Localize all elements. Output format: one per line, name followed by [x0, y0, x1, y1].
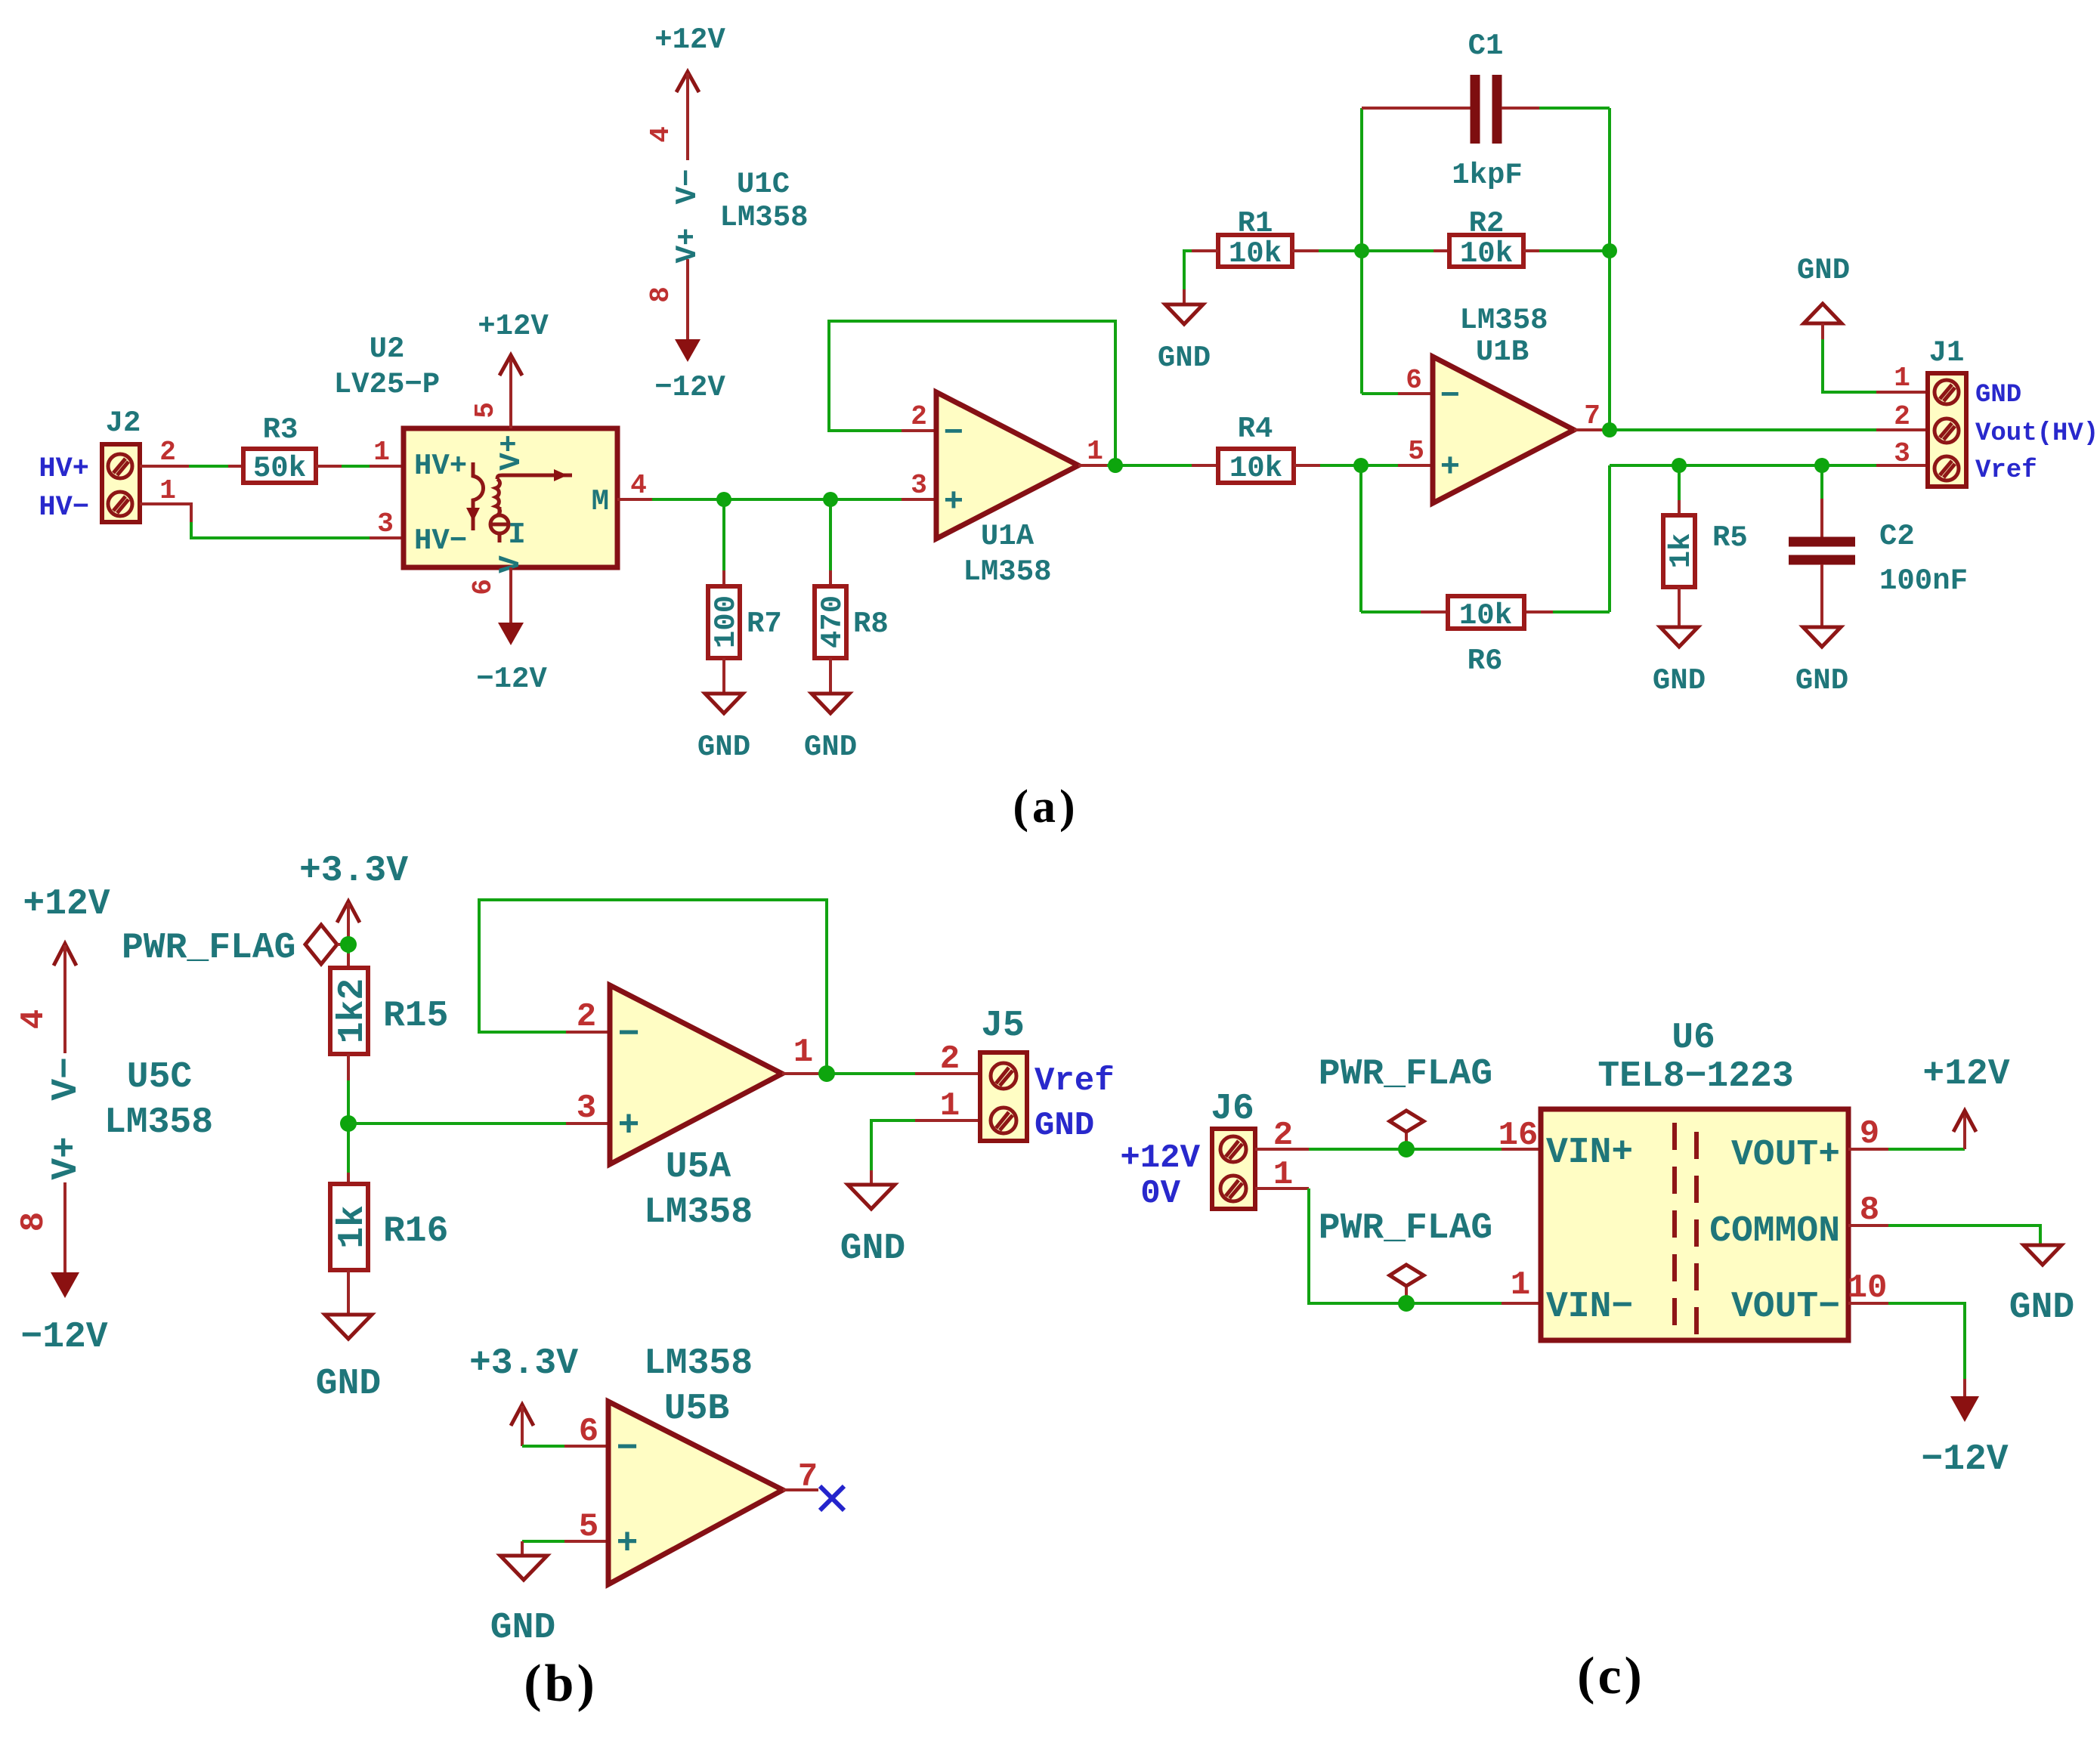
power +3.3V above R15 — [299, 851, 408, 944]
svg-text:50k: 50k — [253, 452, 306, 485]
svg-text:−: − — [617, 1429, 639, 1470]
svg-text:GND: GND — [1158, 342, 1211, 375]
node junction R5 tap — [1672, 458, 1687, 473]
svg-text:C1: C1 — [1468, 29, 1504, 63]
wire down to R5 — [1678, 465, 1681, 515]
svg-text:+: + — [944, 484, 963, 521]
U2 internal current source — [490, 507, 509, 542]
svg-text:U1A: U1A — [981, 520, 1035, 553]
wire to R15 — [347, 944, 350, 968]
resistor R6 — [1448, 596, 1524, 678]
wire down to R8 — [829, 499, 832, 586]
svg-text:GND: GND — [1795, 664, 1848, 697]
ground below R7 — [697, 694, 750, 764]
svg-text:R3: R3 — [263, 413, 298, 447]
svg-text:6: 6 — [468, 579, 499, 595]
U5C pin 4 V- — [15, 945, 87, 1101]
U5C pin 8 V+ — [15, 1136, 87, 1272]
resistor R5 — [1663, 515, 1748, 587]
wire left rail (C1/R2/U1B pin6) — [1362, 108, 1433, 394]
svg-text:4: 4 — [630, 470, 647, 501]
svg-text:6: 6 — [579, 1413, 598, 1451]
svg-text:10k: 10k — [1229, 237, 1282, 270]
wire J2 pin2 to R3 — [140, 465, 243, 468]
node junction C2 tap — [1814, 458, 1829, 473]
svg-text:U1B: U1B — [1476, 335, 1529, 369]
svg-text:COMMON: COMMON — [1709, 1211, 1840, 1252]
svg-text:470: 470 — [816, 595, 849, 648]
svg-text:LM358: LM358 — [644, 1192, 753, 1233]
svg-text:2: 2 — [911, 401, 927, 432]
wire divider to U5A pin3 — [348, 1122, 610, 1125]
svg-text:10: 10 — [1848, 1269, 1888, 1307]
op-amp U5A — [610, 985, 782, 1233]
wire +3.3V to U5B pin6 — [522, 1445, 608, 1448]
wire R1 left to GND — [1184, 251, 1218, 304]
power +12V above U2 — [478, 310, 549, 428]
wire U5A pin2 feedback loop — [479, 900, 827, 1074]
wire R7 to GND — [722, 658, 725, 694]
wire VOUT+ to +12V — [1848, 1112, 1965, 1149]
svg-text:HV−: HV− — [39, 492, 89, 524]
svg-text:U1C: U1C — [737, 168, 790, 201]
svg-text:PWR_FLAG: PWR_FLAG — [1319, 1054, 1492, 1095]
svg-text:J6: J6 — [1211, 1089, 1254, 1130]
svg-text:R4: R4 — [1238, 413, 1273, 446]
svg-text:LM358: LM358 — [104, 1102, 213, 1143]
svg-text:R1: R1 — [1238, 207, 1273, 240]
wire to R16 — [347, 1173, 350, 1184]
svg-text:V: V — [495, 453, 528, 471]
svg-text:1: 1 — [1894, 363, 1910, 394]
svg-text:5: 5 — [1408, 436, 1424, 467]
svg-text:7: 7 — [1584, 400, 1601, 431]
resistor R1 — [1218, 207, 1292, 270]
resistor R16 — [330, 1184, 448, 1270]
op-amp power unit U5C — [104, 1057, 213, 1143]
wire U5B output stub — [783, 1488, 818, 1491]
power +12V (U6 output) — [1922, 1054, 2009, 1132]
resistor R15 — [330, 968, 448, 1054]
power +12V (U5C) — [23, 884, 110, 966]
svg-text:8: 8 — [15, 1212, 53, 1232]
wire U1A pin2 feedback — [829, 321, 1115, 465]
connector J2 — [102, 406, 141, 522]
svg-text:+: + — [617, 1524, 639, 1565]
power -12V (U6 output) — [1921, 1396, 2008, 1480]
svg-text:3: 3 — [577, 1089, 596, 1127]
svg-text:HV+: HV+ — [39, 453, 89, 485]
svg-text:8: 8 — [1860, 1191, 1879, 1229]
wire U1A output — [1078, 464, 1218, 467]
svg-text:J1: J1 — [1929, 336, 1965, 369]
wire R15 to divider node — [347, 1054, 350, 1173]
resistor R4 — [1218, 413, 1294, 485]
ground below R8 — [804, 694, 857, 764]
svg-text:GND: GND — [1975, 381, 2021, 410]
U1C pin 4 V- — [645, 73, 704, 204]
svg-text:1: 1 — [793, 1034, 813, 1071]
svg-text:TEL8−1223: TEL8−1223 — [1597, 1056, 1793, 1097]
svg-text:(c): (c) — [1577, 1647, 1645, 1705]
node junction divider tap — [340, 1115, 357, 1132]
svg-text:V+: V+ — [46, 1136, 87, 1180]
svg-text:9: 9 — [1860, 1115, 1879, 1153]
svg-text:GND: GND — [1797, 254, 1850, 287]
svg-text:1k2: 1k2 — [332, 978, 373, 1043]
node junction right rail / R2 — [1602, 243, 1617, 258]
connector J6 — [1211, 1089, 1255, 1209]
connector J5 — [980, 1006, 1027, 1141]
svg-text:2: 2 — [159, 437, 176, 468]
wire C2 to GND — [1820, 564, 1823, 627]
svg-text:U5C: U5C — [127, 1057, 192, 1098]
svg-text:Vout(HV): Vout(HV) — [1975, 419, 2098, 448]
node junction at R6 tap — [1353, 458, 1369, 473]
svg-text:M: M — [592, 485, 609, 518]
svg-text:6: 6 — [1406, 365, 1422, 396]
svg-text:0V: 0V — [1140, 1175, 1180, 1213]
svg-text:1k: 1k — [1665, 533, 1698, 569]
svg-text:+12V: +12V — [1120, 1139, 1200, 1177]
svg-text:−: − — [618, 1015, 640, 1055]
power flag PWR_FLAG (VIN-) — [1319, 1208, 1492, 1303]
wire GND to J1 pin1 — [1823, 339, 1928, 392]
U1C pin 8 V+ — [645, 228, 704, 339]
U2 internal primary winding with arrow — [466, 462, 484, 530]
svg-text:R5: R5 — [1712, 521, 1748, 555]
U2 internal secondary coil — [496, 479, 500, 515]
svg-text:U2: U2 — [370, 332, 405, 366]
svg-text:+12V: +12V — [654, 23, 725, 57]
op-amp power unit U1C — [719, 168, 808, 234]
svg-text:GND: GND — [840, 1229, 905, 1269]
wire down to R7 — [722, 499, 725, 586]
svg-text:GND: GND — [1653, 664, 1706, 697]
power -12V (U1C) — [654, 339, 725, 404]
ground below R1 — [1158, 304, 1211, 375]
svg-text:1: 1 — [1511, 1266, 1530, 1304]
wire Vref net to J1 pin3 — [1610, 464, 1928, 467]
svg-text:3: 3 — [1894, 438, 1910, 469]
node junction U1B output — [1602, 422, 1617, 437]
wire right rail C1/R2 down to U1B output — [1608, 108, 1611, 430]
svg-text:−: − — [1440, 378, 1460, 416]
svg-text:(b): (b) — [524, 1655, 598, 1713]
svg-text:C2: C2 — [1879, 520, 1915, 553]
svg-text:Vref: Vref — [1975, 456, 2037, 485]
power flag PWR_FLAG (+3.3V rail) — [122, 925, 348, 969]
U2 internal arrow to M — [497, 469, 572, 481]
svg-text:V−: V− — [671, 169, 704, 205]
ground below C2 — [1795, 627, 1848, 697]
svg-text:VOUT+: VOUT+ — [1731, 1135, 1840, 1176]
node junction PWR_FLAG / VIN- — [1398, 1295, 1415, 1312]
wire VOUT- to -12V — [1848, 1303, 1965, 1396]
connector J1 — [1928, 336, 1966, 487]
power +3.3V above U5B — [469, 1343, 578, 1446]
wire U2 pin4 M to U1A pin3 — [617, 498, 936, 501]
wire J6 pin1 to U6 VIN- — [1255, 1188, 1541, 1303]
wire R4 to U1B pin5 — [1294, 464, 1433, 467]
op-amp U1A — [936, 392, 1078, 589]
wire R1 right to rail — [1292, 249, 1362, 252]
power -12V below U2 — [476, 567, 547, 696]
ground below J5 — [840, 1185, 905, 1269]
svg-text:5: 5 — [470, 402, 501, 419]
svg-text:−12V: −12V — [1921, 1439, 2008, 1480]
svg-text:3: 3 — [377, 508, 394, 539]
svg-text:10k: 10k — [1459, 599, 1512, 632]
op-amp U5B — [608, 1343, 783, 1584]
node junction at R7 tap — [716, 492, 731, 507]
svg-text:4: 4 — [15, 1009, 53, 1029]
svg-text:LM358: LM358 — [963, 555, 1051, 589]
wire J2 pin1 to U2 HV- — [140, 504, 404, 538]
svg-text:VIN+: VIN+ — [1546, 1133, 1633, 1173]
svg-text:J5: J5 — [981, 1006, 1025, 1046]
svg-text:LM358: LM358 — [1459, 304, 1548, 337]
svg-text:(a): (a) — [1013, 781, 1078, 833]
ground below R16 — [316, 1315, 381, 1405]
svg-text:VOUT−: VOUT− — [1731, 1287, 1840, 1327]
wire R3 to U2 pin1 — [316, 465, 404, 468]
wire R16 to GND — [347, 1270, 350, 1315]
power flag PWR_FLAG (VIN+) — [1319, 1054, 1492, 1149]
svg-text:+3.3V: +3.3V — [299, 851, 408, 892]
node junction U1A output — [1108, 458, 1123, 473]
svg-text:I: I — [508, 518, 525, 552]
svg-text:U6: U6 — [1672, 1018, 1715, 1059]
wire down to C2 — [1820, 465, 1823, 537]
svg-text:10k: 10k — [1460, 237, 1513, 270]
svg-text:V−: V− — [46, 1057, 87, 1101]
node junction +3.3V / PWR_FLAG / R15 — [340, 936, 357, 953]
svg-text:U5A: U5A — [666, 1147, 731, 1188]
svg-text:1: 1 — [159, 475, 176, 506]
capacitor C1 — [1362, 29, 1610, 192]
svg-text:+: + — [1440, 449, 1460, 487]
svg-text:V+: V+ — [671, 228, 704, 264]
wire GND to U5B pin5 — [522, 1541, 608, 1556]
svg-text:+12V: +12V — [478, 310, 549, 343]
svg-text:2: 2 — [1894, 401, 1910, 432]
power -12V (U5C) — [20, 1272, 107, 1358]
svg-text:2: 2 — [940, 1040, 960, 1078]
svg-text:GND: GND — [2009, 1287, 2074, 1328]
svg-text:GND: GND — [1035, 1107, 1094, 1145]
resistor R3 — [243, 413, 316, 485]
resistor R8 — [815, 586, 889, 658]
capacitor C2 — [1789, 520, 1968, 598]
ground below U5B pin5 — [490, 1556, 555, 1649]
ground below R5 — [1653, 627, 1706, 697]
svg-text:GND: GND — [490, 1608, 555, 1649]
svg-text:+3.3V: +3.3V — [469, 1343, 578, 1384]
svg-text:3: 3 — [911, 470, 927, 501]
wire R8 to GND — [829, 658, 832, 694]
wire J6 pin2 to U6 VIN+ — [1255, 1148, 1541, 1151]
svg-text:GND: GND — [804, 731, 857, 764]
wire U1B output to J1 pin2 — [1574, 428, 1928, 431]
node junction left rail / R2 — [1354, 243, 1369, 258]
svg-text:+12V: +12V — [1922, 1054, 2009, 1095]
svg-text:LM358: LM358 — [719, 201, 808, 234]
ground at COMMON — [2009, 1245, 2074, 1328]
svg-text:R6: R6 — [1468, 644, 1503, 678]
svg-text:1k: 1k — [332, 1205, 373, 1249]
node junction U5A output — [818, 1065, 835, 1082]
op-amp U1B — [1433, 304, 1574, 503]
node junction PWR_FLAG / VIN+ — [1398, 1141, 1415, 1157]
svg-text:−12V: −12V — [654, 371, 725, 404]
svg-text:LV25−P: LV25−P — [334, 368, 440, 401]
svg-text:U5B: U5B — [664, 1389, 729, 1429]
node junction at R8 tap — [823, 492, 838, 507]
svg-text:HV+: HV+ — [414, 450, 467, 483]
resistor R2 — [1362, 207, 1610, 270]
svg-text:HV−: HV− — [414, 524, 467, 558]
svg-text:LM358: LM358 — [644, 1343, 753, 1384]
DC/DC converter U6 TEL8-1223 — [1541, 1018, 1848, 1340]
svg-text:16: 16 — [1498, 1117, 1539, 1154]
svg-text:2: 2 — [577, 998, 596, 1036]
svg-text:+: + — [618, 1106, 640, 1147]
svg-text:GND: GND — [697, 731, 750, 764]
svg-text:R2: R2 — [1469, 207, 1505, 240]
svg-text:R7: R7 — [747, 607, 782, 641]
LEM transducer U2 LV25-P — [334, 332, 617, 567]
resistor R7 — [708, 586, 782, 658]
svg-text:R16: R16 — [383, 1211, 448, 1252]
wire R6 loop (pin5 node to Vref rail) — [1361, 465, 1610, 612]
wire J5 pin1 to GND — [871, 1120, 980, 1185]
wire COMMON to GND — [1848, 1225, 2040, 1245]
svg-text:8: 8 — [645, 286, 676, 303]
wire U5A output to J5 — [782, 1072, 980, 1075]
ground above J1 (GND up symbol) — [1797, 254, 1850, 339]
svg-text:100nF: 100nF — [1879, 564, 1968, 598]
svg-text:4: 4 — [645, 126, 676, 143]
U2 internal labels V+ / V- / I — [494, 429, 528, 573]
svg-text:100: 100 — [710, 595, 743, 648]
svg-text:PWR_FLAG: PWR_FLAG — [1319, 1208, 1492, 1249]
svg-text:Vref: Vref — [1035, 1062, 1115, 1100]
svg-text:GND: GND — [316, 1364, 381, 1405]
no-connect X at U5B pin7 — [820, 1486, 844, 1510]
power +12V (U1C) — [654, 23, 725, 92]
svg-text:1: 1 — [373, 437, 390, 468]
svg-text:−: − — [944, 415, 963, 453]
svg-text:R8: R8 — [853, 607, 889, 641]
svg-text:−12V: −12V — [476, 663, 547, 696]
svg-text:PWR_FLAG: PWR_FLAG — [122, 928, 295, 969]
svg-text:10k: 10k — [1229, 452, 1282, 485]
wire R5 to GND — [1678, 587, 1681, 627]
svg-text:R15: R15 — [383, 996, 448, 1037]
svg-text:J2: J2 — [106, 406, 141, 440]
svg-text:1kpF: 1kpF — [1452, 159, 1523, 192]
svg-text:+12V: +12V — [23, 884, 110, 925]
svg-text:VIN−: VIN− — [1546, 1287, 1633, 1327]
svg-text:1: 1 — [1087, 436, 1103, 467]
svg-text:−12V: −12V — [20, 1317, 107, 1358]
